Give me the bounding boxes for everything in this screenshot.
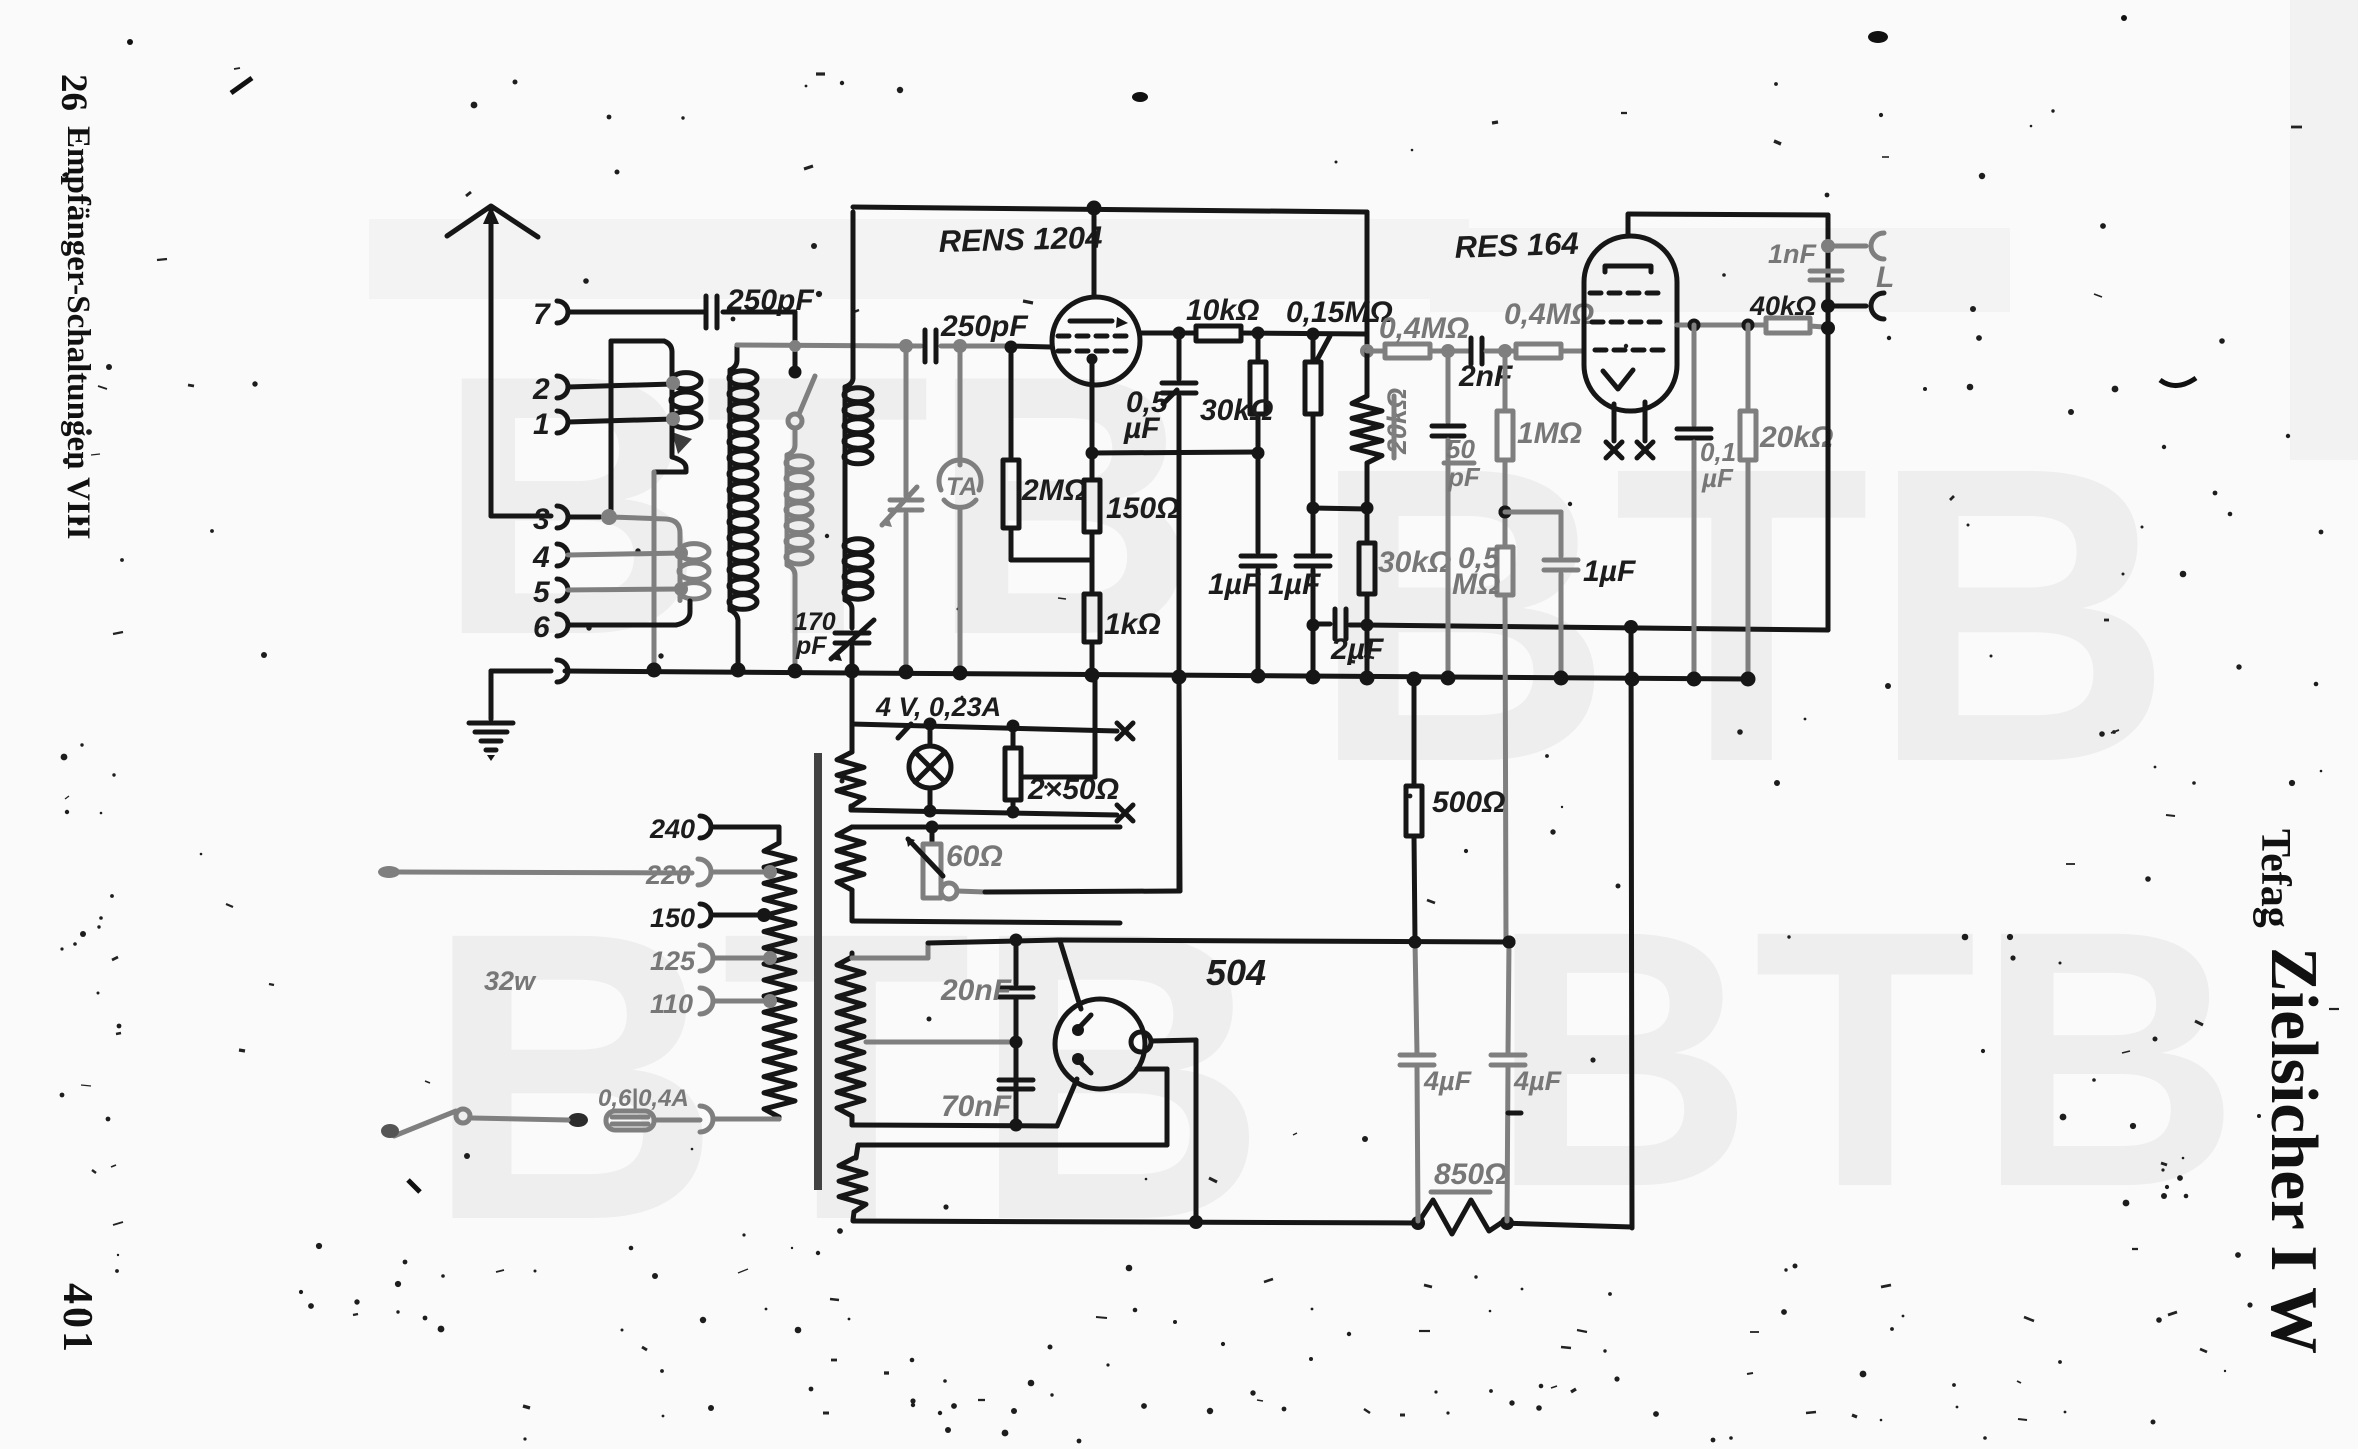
node jack2 (1821, 299, 1835, 313)
switch lever (799, 376, 815, 414)
resistor 0.5M (1503, 512, 1508, 547)
resistor 0.4M 1 (1367, 349, 1385, 354)
trimmer capacitor (904, 346, 909, 496)
svg-text:110: 110 (650, 989, 693, 1019)
capacitor 1uF 3 (1559, 512, 1564, 556)
jack TA (958, 346, 963, 465)
wire line A (1367, 625, 1828, 630)
node 0.5uF bus (1172, 670, 1187, 685)
svg-text:Tefag: Tefag (2252, 829, 2298, 928)
mark stub (1508, 1111, 1521, 1116)
svg-text:1: 1 (533, 408, 550, 441)
svg-text:125: 125 (650, 946, 696, 976)
504 side contact (1131, 1032, 1151, 1052)
svg-text:L: L (1876, 261, 1894, 294)
svg-text:30kΩ: 30kΩ (1378, 546, 1451, 579)
wire 250pF to switch (723, 310, 795, 315)
node 20k bus end (1741, 672, 1756, 687)
wire 504 heater loop (1137, 1067, 1167, 1072)
svg-text:2MΩ: 2MΩ (1021, 474, 1087, 507)
resistor 500 (1407, 672, 1422, 687)
node TA bus (953, 666, 968, 681)
svg-text:32w: 32w (484, 966, 537, 996)
heater top line (852, 724, 1117, 731)
ground (489, 671, 494, 719)
svg-text:60Ω: 60Ω (946, 840, 1003, 873)
capacitor 2nF (1452, 349, 1468, 354)
output column (1826, 215, 1831, 630)
capacitor 4uF 1 (1415, 942, 1417, 1053)
node 2M grid (1005, 341, 1018, 354)
svg-text:1nF: 1nF (1768, 239, 1818, 269)
svg-text:1µF: 1µF (1208, 568, 1261, 601)
svg-text:1MΩ: 1MΩ (1517, 417, 1582, 450)
svg-text:pF: pF (795, 632, 827, 660)
svg-text:500Ω: 500Ω (1432, 786, 1505, 819)
svg-text:RENS 1204: RENS 1204 (938, 220, 1103, 259)
heater line S2 top (852, 825, 1120, 830)
svg-text:0,6|0,4A: 0,6|0,4A (598, 1085, 689, 1112)
svg-text:0,15MΩ: 0,15MΩ (1286, 296, 1393, 329)
capacitor 1uF (AF) (1311, 508, 1316, 552)
jack output 1 (1871, 233, 1884, 259)
svg-text:504: 504 (1206, 952, 1266, 993)
svg-text:4µF: 4µF (1423, 1066, 1473, 1096)
node 1uF3 bus (1554, 671, 1569, 686)
jack output 2 (1871, 293, 1884, 319)
svg-text:µF: µF (1701, 463, 1734, 493)
svg-text:150: 150 (650, 903, 695, 933)
heater line S2 bottom (852, 921, 1120, 923)
svg-text:4: 4 (532, 541, 550, 574)
box right edge (1365, 212, 1370, 351)
node cathode bus (1085, 668, 1100, 683)
wire anode2 diag (1057, 1079, 1077, 1126)
svg-text:401: 401 (54, 1283, 100, 1355)
node 4uF1 bottom (1411, 1216, 1425, 1230)
coil tap arrow (672, 432, 692, 454)
node L4 bus (845, 664, 860, 679)
resistor 30k 2 (1365, 508, 1370, 543)
svg-text:6: 6 (533, 611, 550, 644)
resistor 2x50 (1011, 726, 1016, 748)
wire anode1 diag (1060, 941, 1081, 1009)
resistor 1k (1084, 594, 1100, 642)
node jack1 (1821, 239, 1835, 253)
capacitor 250pF (grid) (923, 330, 928, 362)
svg-text:Zielsicher I W: Zielsicher I W (2257, 947, 2331, 1354)
wire grid RC to 1uF3 (1505, 510, 1561, 515)
ground terminal (557, 660, 568, 682)
wire S3 top (852, 956, 928, 961)
wire terminal3 to L1b (611, 517, 680, 542)
resistor 20k zigzag (1365, 351, 1370, 396)
node 1632 bus (1625, 672, 1640, 687)
svg-text:3: 3 (533, 503, 550, 536)
anode line 10k (1140, 331, 1196, 336)
winding S1 (heater RENS) (850, 678, 855, 752)
capacitor 0.5uF (1177, 333, 1182, 379)
resistor 2M (1009, 347, 1014, 460)
svg-text:1µF: 1µF (1268, 568, 1321, 601)
svg-text:10kΩ: 10kΩ (1186, 294, 1259, 327)
mains switch (568, 1113, 588, 1127)
node 1uF bus (1251, 669, 1266, 684)
tube 504 (1055, 999, 1145, 1089)
wire grid line (737, 345, 921, 346)
RES164 heater leads (1612, 404, 1617, 441)
wire jack1 (1828, 244, 1866, 249)
node trimmer top (899, 339, 913, 353)
resistor 30k (screen) (1256, 333, 1261, 362)
capacitor 0.1uF (1692, 325, 1697, 425)
svg-text:0,4MΩ: 0,4MΩ (1504, 298, 1594, 331)
capacitor 1nF (1810, 269, 1842, 274)
wire antenna to terminal 3 (491, 514, 551, 519)
winding S3 (HT) (850, 953, 855, 957)
svg-text:30kΩ: 30kΩ (1200, 394, 1273, 427)
capacitor 20nF (1014, 940, 1019, 984)
resistor 20k output (1746, 325, 1751, 411)
wire S3 bottom (852, 1125, 1057, 1126)
capacitor 250pF (antenna) (704, 296, 709, 328)
node TA top (953, 339, 967, 353)
node 50pF bus (1441, 671, 1456, 686)
heater tap to cathode (1021, 775, 1095, 780)
svg-text:2µF: 2µF (1330, 633, 1384, 666)
svg-text:20kΩ: 20kΩ (1759, 421, 1833, 454)
resistor 40k (1766, 318, 1810, 333)
coil L1a lower outline (655, 430, 686, 472)
svg-text:2: 2 (532, 373, 550, 406)
svg-text:1kΩ: 1kΩ (1104, 608, 1161, 641)
svg-text:0,4MΩ: 0,4MΩ (1379, 312, 1469, 345)
svg-text:pF: pF (1447, 462, 1481, 492)
svg-text:50: 50 (1446, 434, 1475, 464)
node 1632 (1624, 620, 1638, 634)
resistor 0.4M 2 (1505, 349, 1516, 354)
wire HT column (1631, 627, 1632, 1228)
svg-text:TA: TA (946, 473, 977, 501)
svg-text:4 V, 0,23A: 4 V, 0,23A (875, 692, 1001, 722)
node 4uF2 bottom (1500, 1216, 1514, 1230)
node L3 bus (788, 664, 803, 679)
fuse terminal (700, 1106, 713, 1132)
anode top wire (1628, 214, 1828, 215)
coil L3 (feedback) (787, 428, 795, 455)
svg-text:26: 26 (53, 74, 94, 111)
wire 504 cathode (1151, 1040, 1196, 1041)
node switch grid (789, 340, 801, 352)
node L2 bus (731, 663, 746, 678)
svg-text:5: 5 (533, 576, 551, 609)
antenna (447, 206, 538, 237)
winding S4 (heater 504) (839, 1158, 866, 1212)
primary winding (777, 827, 782, 843)
svg-text:240: 240 (649, 814, 695, 844)
wire S3 tap (866, 1040, 1016, 1045)
transformer core (814, 753, 822, 1190)
coil L1a upper (ant primary) (609, 341, 614, 516)
resistor 850 zigzag (1418, 1200, 1501, 1234)
anode box top (853, 207, 1367, 212)
resistor 1M (1503, 351, 1508, 411)
node switch top (789, 366, 802, 379)
node trimmer bus (899, 665, 914, 680)
svg-text:µF: µF (1123, 412, 1160, 445)
tube RENS 1204 (1052, 297, 1140, 385)
plate line 40k (1677, 323, 1766, 328)
svg-text:150Ω: 150Ω (1106, 492, 1179, 525)
resistor 0.15M (1311, 334, 1316, 362)
coil L2 (tuned) (730, 345, 737, 370)
capacitor 1uF (screen) (1241, 554, 1275, 559)
wire 60 wiper (957, 891, 985, 892)
winding S2 (heater ind) (837, 827, 864, 890)
tube RES 164 (1584, 236, 1677, 411)
svg-text:70nF: 70nF (941, 1090, 1012, 1123)
svg-text:20nF: 20nF (940, 974, 1012, 1007)
504 anode pins (1075, 1015, 1091, 1032)
svg-text:4µF: 4µF (1513, 1066, 1563, 1096)
svg-text:20kΩ: 20kΩ (1382, 388, 1412, 455)
capacitor 170pF variable (835, 631, 869, 636)
heater bottom line (851, 810, 1117, 815)
svg-text:1µF: 1µF (1583, 555, 1636, 588)
svg-text:MΩ: MΩ (1452, 568, 1500, 601)
cathode lead (1090, 385, 1095, 452)
node 0.4M takeoff (1360, 344, 1374, 358)
coil L1b (ant secondary) (678, 542, 683, 601)
svg-text:250pF: 250pF (940, 310, 1028, 343)
wire jack2 (1828, 304, 1866, 309)
capacitor 50pF (1446, 351, 1451, 422)
node 0.1uF bus (1687, 672, 1702, 687)
coil L4 (coupling) (851, 212, 856, 378)
ground bus (565, 671, 1748, 679)
wire 30k2 to bus (1365, 625, 1370, 676)
svg-text:850Ω: 850Ω (1434, 1158, 1507, 1191)
svg-text:Empfänger-Schaltungen VIII: Empfänger-Schaltungen VIII (60, 126, 96, 539)
capacitor 2uF (1313, 622, 1330, 627)
wire HT feed (1058, 940, 1509, 942)
svg-text:7: 7 (533, 298, 551, 331)
resistor 150 (1090, 453, 1095, 480)
lamp (909, 746, 951, 788)
node 1uF2 bus (1306, 670, 1321, 685)
bottom line (853, 1221, 1418, 1223)
rheostat 60 (923, 844, 941, 898)
svg-text:40kΩ: 40kΩ (1749, 291, 1816, 321)
capacitor 70nF (1014, 997, 1019, 1125)
svg-text:RES 164: RES 164 (1454, 226, 1579, 265)
bottom line right (1501, 1223, 1632, 1227)
capacitor 4uF 2 (1491, 1053, 1525, 1058)
